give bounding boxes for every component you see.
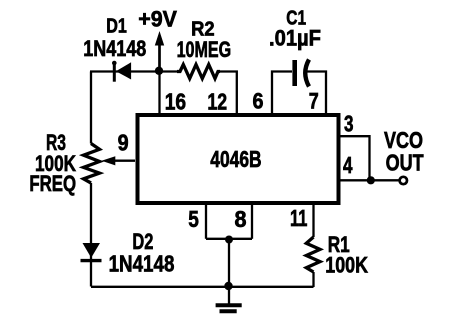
wire R2 branch xyxy=(159,70,177,72)
wire pin16 xyxy=(158,72,160,115)
node bracket junction xyxy=(225,236,233,244)
svg-text:OUT: OUT xyxy=(386,150,424,176)
capacitor C1 bracket right (pin 7) xyxy=(307,72,326,115)
svg-text:.01µF: .01µF xyxy=(269,26,321,51)
wire pin12 corner xyxy=(220,72,237,115)
node rail junction xyxy=(224,282,232,290)
wire D1 horizontal xyxy=(90,70,159,72)
diode D1 xyxy=(112,61,131,82)
svg-text:6: 6 xyxy=(253,89,264,114)
resistor R2 xyxy=(177,65,220,79)
wire R1 bottom xyxy=(312,272,314,287)
wire bottom rail xyxy=(91,286,314,288)
svg-text:FREQ: FREQ xyxy=(29,171,76,196)
wire pin 4 to output xyxy=(339,179,399,181)
svg-text:D1: D1 xyxy=(106,16,127,38)
wire left loop vertical top segment xyxy=(90,72,92,144)
terminal VCO OUT xyxy=(400,177,407,184)
svg-text:100K: 100K xyxy=(325,253,368,278)
capacitor C1 bracket left (pin 6) xyxy=(272,72,292,115)
svg-text:16: 16 xyxy=(165,88,186,114)
svg-text:3: 3 xyxy=(344,110,354,136)
svg-text:10MEG: 10MEG xyxy=(177,37,232,62)
wiper arrowhead R3 xyxy=(102,156,116,165)
svg-text:5: 5 xyxy=(188,206,199,232)
node output junction xyxy=(367,176,375,184)
svg-text:4046B: 4046B xyxy=(210,146,261,172)
svg-text:1N4148: 1N4148 xyxy=(83,36,146,61)
node junction +9V xyxy=(155,67,163,75)
svg-text:11: 11 xyxy=(290,205,308,231)
svg-text:4: 4 xyxy=(343,152,353,178)
wire ground tap xyxy=(228,240,230,288)
capacitor C1 xyxy=(295,60,309,87)
svg-text:9: 9 xyxy=(118,129,129,155)
svg-text:7: 7 xyxy=(309,89,319,114)
svg-text:12: 12 xyxy=(207,88,227,114)
svg-text:+9V: +9V xyxy=(138,7,177,32)
wire pin 3 xyxy=(339,136,370,180)
ground xyxy=(216,287,242,311)
wire bracket pins 5-8 xyxy=(206,238,252,240)
diode D2 xyxy=(81,243,102,261)
wire pin 11 xyxy=(312,203,314,237)
power +9V arrow xyxy=(155,31,164,70)
resistor R3 xyxy=(84,144,100,184)
wire left vertical bottom segment xyxy=(90,183,92,287)
IC U1 4046B body xyxy=(138,115,339,203)
resistor R1 xyxy=(306,237,320,272)
svg-text:8: 8 xyxy=(235,206,247,232)
wire pin 9 arrow line xyxy=(112,160,135,162)
wire pin 8 xyxy=(251,203,253,239)
svg-text:1N4148: 1N4148 xyxy=(109,251,175,277)
wire pin 5 xyxy=(205,203,207,239)
